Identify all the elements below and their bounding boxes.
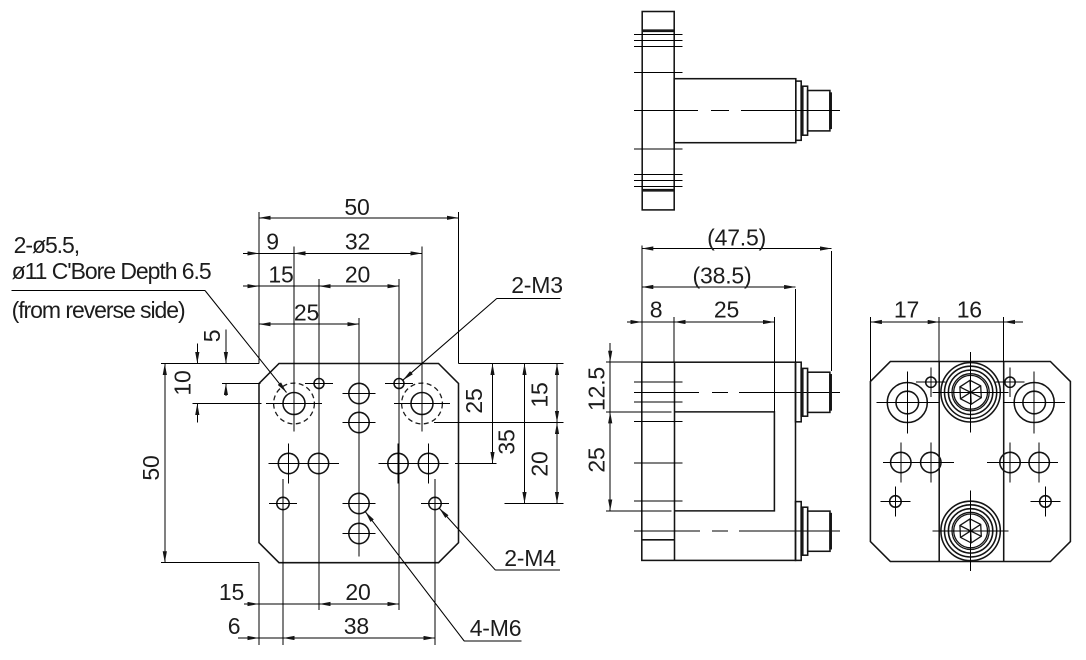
dim 20 right — [556, 423, 558, 504]
dim 12.5 — [609, 343, 611, 362]
dim 32 — [294, 252, 422, 254]
back plate outline — [870, 362, 1070, 562]
dim (38.5) — [642, 286, 796, 288]
svg-text:12.5: 12.5 — [584, 367, 610, 411]
top view inner lines — [642, 29, 674, 31]
side view inner line bottom — [642, 539, 674, 541]
dim 25 side left — [609, 412, 611, 511]
side view cutout — [675, 412, 775, 511]
front plate outline — [259, 364, 459, 563]
back top knob — [941, 363, 1000, 422]
svg-text:25: 25 — [584, 447, 610, 472]
crosshairs front view — [266, 403, 322, 405]
dim 17 — [870, 321, 939, 323]
svg-text:15: 15 — [527, 382, 553, 407]
dim 15 bottom — [244, 603, 259, 605]
svg-text:35: 35 — [494, 429, 520, 454]
svg-text:(from reverse side): (from reverse side) — [12, 297, 185, 323]
side view extension lines — [641, 245, 643, 362]
leader to counterbore — [205, 291, 287, 393]
dim 10 — [196, 344, 198, 364]
top view axis centerline — [634, 110, 840, 112]
M3 hole left — [314, 379, 324, 389]
side view axis top — [634, 391, 840, 393]
dim 25 side top — [674, 321, 774, 323]
dim 50 left — [164, 364, 166, 563]
svg-text:20: 20 — [345, 579, 370, 605]
dim 15 top — [243, 285, 259, 287]
note underline — [12, 290, 205, 292]
dim (47.5) — [642, 248, 832, 250]
back bottom knob hex socket — [960, 519, 981, 543]
side view axis bottom — [634, 530, 840, 532]
back view extension lines — [869, 317, 871, 381]
dim 6 bottom — [238, 637, 259, 639]
top view micrometer body — [674, 79, 796, 143]
top view plate — [642, 12, 674, 210]
back M3 left — [926, 377, 936, 387]
side top micrometer end cap — [830, 375, 831, 410]
M6 holes middle row — [278, 453, 298, 473]
long centerlines front view — [293, 246, 295, 431]
side top micrometer step — [801, 368, 807, 416]
back mid holes right — [1000, 452, 1020, 472]
top view micrometer flange — [796, 81, 801, 140]
back counterbore left — [887, 383, 927, 423]
dim 50 top — [259, 217, 459, 219]
M4 hole right — [429, 497, 441, 509]
dim 25 right — [492, 364, 494, 464]
svg-text:6: 6 — [228, 613, 241, 639]
counterbore left dashed circle — [274, 383, 315, 424]
dim 16 — [939, 321, 1004, 323]
svg-text:15: 15 — [268, 262, 293, 288]
svg-text:8: 8 — [650, 297, 663, 323]
dim 38 bottom — [283, 637, 435, 639]
svg-text:15: 15 — [219, 579, 244, 605]
counterbore hole right — [411, 393, 433, 415]
M4 hole left — [277, 497, 289, 509]
back M3 right — [1005, 377, 1015, 387]
counterbore right dashed circle — [402, 383, 443, 424]
svg-text:2-M3: 2-M3 — [511, 272, 563, 298]
svg-text:9: 9 — [266, 229, 279, 255]
side bottom micrometer step — [801, 507, 808, 555]
svg-text:17: 17 — [894, 297, 919, 323]
back bottom knob — [941, 501, 1000, 560]
M6 holes middle column bottom — [349, 493, 369, 513]
dim 15 right — [556, 364, 558, 423]
svg-text:25: 25 — [461, 388, 487, 413]
dim 25 top — [259, 323, 359, 325]
back top knob crosshair — [970, 352, 972, 433]
svg-text:25: 25 — [294, 300, 319, 326]
back bottom knob crosshair — [970, 491, 972, 572]
svg-text:50: 50 — [138, 455, 164, 480]
svg-text:5: 5 — [199, 330, 225, 343]
svg-text:25: 25 — [714, 297, 739, 323]
M3 hole right — [394, 379, 404, 389]
dim 20 bottom — [319, 603, 399, 605]
dim 20 top — [319, 285, 399, 287]
M6 holes middle column top — [349, 383, 369, 403]
svg-text:(38.5): (38.5) — [693, 263, 752, 289]
top view groove lines — [634, 33, 683, 35]
dim 35 right — [524, 364, 526, 504]
side view groove lines — [634, 381, 683, 383]
back channel lines — [938, 362, 940, 562]
svg-text:50: 50 — [344, 194, 369, 220]
back mid holes left — [891, 452, 911, 472]
dim 8 — [627, 321, 642, 323]
back M4 left — [890, 496, 902, 508]
svg-text:4-M6: 4-M6 — [470, 615, 522, 641]
dim 5 — [225, 330, 227, 364]
svg-text:(47.5): (47.5) — [707, 225, 766, 251]
side top micrometer flange — [796, 362, 802, 422]
svg-text:20: 20 — [527, 451, 553, 476]
side bottom micrometer end cap — [830, 514, 831, 549]
counterbore hole left — [283, 393, 305, 415]
svg-text:32: 32 — [345, 229, 370, 255]
svg-text:20: 20 — [345, 262, 370, 288]
side top micrometer barrel — [808, 372, 830, 412]
svg-text:2-ø5.5,: 2-ø5.5, — [14, 232, 80, 258]
svg-text:2-M4: 2-M4 — [504, 545, 556, 571]
svg-text:16: 16 — [957, 297, 982, 323]
side bottom micrometer flange — [796, 502, 802, 561]
back M4 right — [1040, 496, 1052, 508]
top view micrometer barrel — [808, 91, 830, 131]
extension lines front view — [161, 363, 259, 365]
side view plate edge — [674, 362, 676, 560]
svg-text:10: 10 — [170, 370, 196, 395]
side bottom micrometer barrel — [808, 511, 830, 551]
side view body outline — [642, 362, 796, 560]
dim 9 — [243, 252, 259, 254]
back counterbore right — [1014, 383, 1054, 423]
top view micrometer step — [801, 86, 807, 135]
top view micrometer end cap — [830, 93, 831, 128]
back top knob hex socket — [960, 380, 981, 404]
svg-text:ø11 C'Bore Depth 6.5: ø11 C'Bore Depth 6.5 — [12, 258, 211, 284]
svg-text:38: 38 — [344, 613, 369, 639]
